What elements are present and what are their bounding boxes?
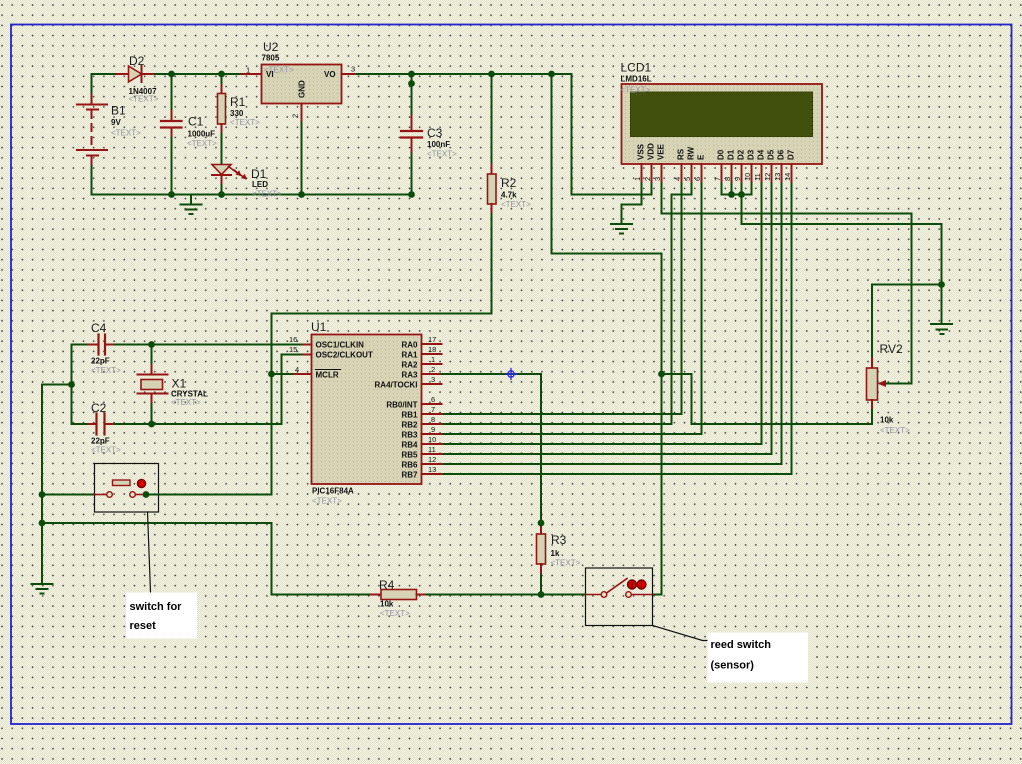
wire: top +9V rail from battery to U2 VI (92, 73, 242, 75)
callout line to reed label (653, 626, 708, 641)
crystal subcircuit: C4 (72, 321, 302, 375)
svg-text:D6: D6 (777, 149, 786, 160)
junction R2 top (488, 71, 495, 78)
svg-text:RA0: RA0 (401, 341, 418, 350)
svg-text:10k: 10k (880, 416, 894, 425)
svg-text:<TEXT>: <TEXT> (111, 129, 141, 138)
svg-text:C1: C1 (188, 115, 204, 129)
wire: C2/X1 bottom up to OSC2 (282, 355, 302, 425)
svg-text:D4: D4 (757, 149, 766, 160)
svg-text:RB1: RB1 (401, 411, 418, 420)
svg-text:16: 16 (289, 335, 297, 344)
wire: LCD VSS to ground (622, 184, 642, 224)
wire: RV2 top terminal to grounded net (872, 285, 942, 359)
wire: D0-D3 tie to ground at right (742, 195, 942, 324)
svg-text:reed switch: reed switch (711, 639, 772, 651)
svg-text:D7: D7 (787, 149, 796, 160)
svg-text:<TEXT>: <TEXT> (252, 190, 282, 199)
svg-text:8: 8 (723, 177, 732, 181)
svg-text:9: 9 (431, 425, 435, 434)
svg-text:3: 3 (351, 65, 355, 74)
wire: reset switch row (42, 494, 95, 496)
svg-text:4: 4 (295, 365, 299, 374)
svg-text:PIC16F84A: PIC16F84A (312, 487, 354, 496)
resistor R4 (371, 578, 427, 618)
svg-text:LED: LED (252, 180, 268, 189)
wire: LCD VDD down to +5V feed (651, 184, 653, 195)
svg-text:RW: RW (687, 146, 696, 160)
wire: R2 bottom to MCLR node (272, 214, 492, 495)
wire: LCD D0-D3 tie (722, 184, 752, 195)
svg-text:switch for: switch for (130, 601, 183, 613)
svg-text:D2: D2 (129, 54, 145, 68)
svg-text:RA3: RA3 (401, 371, 418, 380)
svg-text:<TEXT>: <TEXT> (129, 95, 159, 104)
svg-text:<TEXT>: <TEXT> (427, 150, 457, 159)
svg-text:RA2: RA2 (401, 361, 418, 370)
label: switch for reset (126, 593, 197, 639)
svg-text:VI: VI (266, 70, 274, 79)
svg-text:7805: 7805 (262, 54, 280, 63)
svg-text:5: 5 (683, 177, 692, 181)
svg-text:RS: RS (677, 148, 686, 160)
svg-text:RB4: RB4 (401, 441, 418, 450)
LED D1 (212, 165, 282, 199)
capacitor C1 (161, 74, 217, 195)
junction RV2 ground (938, 281, 945, 288)
svg-text:2: 2 (291, 114, 300, 118)
svg-text:(sensor): (sensor) (711, 660, 755, 672)
svg-text:7: 7 (713, 177, 722, 181)
potentiometer RV2 (867, 342, 911, 435)
reed switch (in box) (586, 568, 653, 626)
junction D1 tie (728, 191, 735, 198)
svg-text:2: 2 (431, 365, 435, 374)
wire: +5V drop at x551 to reed switch, with branch to RV2 bottom (552, 74, 662, 595)
U2 pin 3 (VO) stub (342, 73, 358, 75)
junction C1 bottom (168, 191, 175, 198)
ground symbol (power rail) (181, 195, 202, 215)
svg-text:<TEXT>: <TEXT> (91, 446, 121, 455)
MCLR pin stub of U1 (294, 373, 312, 375)
wire: diode D2 lead segments (red) (117, 73, 129, 75)
svg-text:U2: U2 (263, 40, 279, 54)
svg-text:13: 13 (773, 173, 782, 181)
svg-text:3: 3 (653, 177, 662, 181)
wire: +5V rail from U2 VO to LCD drop (357, 73, 572, 75)
svg-text:C3: C3 (427, 126, 443, 140)
svg-text:RA1: RA1 (401, 351, 418, 360)
capacitor C3 (401, 74, 457, 195)
svg-text:9: 9 (733, 177, 742, 181)
svg-text:GND: GND (298, 80, 307, 98)
svg-text:D5: D5 (767, 149, 776, 160)
svg-text:4: 4 (673, 177, 682, 181)
svg-text:D3: D3 (747, 149, 756, 160)
wire: R4 to reed switch (427, 594, 586, 596)
svg-text:MCLR: MCLR (316, 371, 339, 380)
callout line to reset label (148, 512, 151, 592)
wire: branch to ground leg (42, 384, 72, 386)
ground symbol (bottom left) (32, 584, 53, 594)
label: reed switch (sensor) (708, 633, 809, 683)
svg-text:3: 3 (431, 375, 435, 384)
junction R1 top (218, 71, 225, 78)
svg-text:<TEXT>: <TEXT> (91, 366, 121, 375)
svg-text:RA4/TOCKI: RA4/TOCKI (375, 381, 418, 390)
svg-text:17: 17 (428, 335, 436, 344)
svg-text:22pF: 22pF (91, 437, 110, 446)
svg-text:RB3: RB3 (401, 431, 418, 440)
svg-text:VDD: VDD (647, 143, 656, 160)
svg-text:RB6: RB6 (401, 461, 418, 470)
wire: RA3 to R3 top (442, 374, 542, 523)
junction C1 top (168, 71, 175, 78)
wire: branch from node to RV2 bottom (662, 374, 873, 424)
U1 left pin stubs (OSC1, OSC2) (302, 344, 312, 346)
wire: +5V drop at x571 to LCD VDD (572, 74, 652, 195)
svg-text:15: 15 (289, 345, 297, 354)
svg-text:D1: D1 (727, 149, 736, 160)
wire: LCD D5 to U1 RB5 (442, 184, 772, 455)
svg-text:<TEXT>: <TEXT> (501, 200, 531, 209)
svg-text:U1: U1 (311, 320, 327, 334)
svg-text:9V: 9V (111, 118, 121, 127)
junction X1 top (148, 341, 155, 348)
svg-text:10k: 10k (380, 600, 394, 609)
resistor R3 (537, 523, 581, 595)
junction U2 GND (298, 191, 305, 198)
svg-text:22pF: 22pF (91, 357, 110, 366)
svg-text:OSC2/CLKOUT: OSC2/CLKOUT (316, 351, 373, 360)
svg-text:E: E (697, 154, 706, 160)
svg-text:1000uF: 1000uF (188, 130, 216, 139)
resistor R1 (218, 74, 261, 164)
svg-text:LMD16L: LMD16L (621, 75, 652, 84)
junction R3 top (538, 520, 545, 527)
junction lower row (39, 520, 46, 527)
wire: LCD D4 to U1 RB4 (442, 184, 762, 445)
resistor R2 (488, 74, 532, 214)
svg-text:RB7: RB7 (401, 471, 418, 480)
svg-text:18: 18 (428, 345, 436, 354)
junction C3 aux (408, 80, 415, 87)
svg-text:<TEXT>: <TEXT> (312, 497, 342, 506)
U2 pin 2 (GND) stub and wire (301, 104, 303, 123)
svg-text:12: 12 (763, 173, 772, 181)
junction R3 bottom (538, 591, 545, 598)
svg-text:VEE: VEE (657, 143, 666, 160)
wire: left vertical joining C4 and C2 (71, 345, 73, 425)
junction D1 bottom (218, 191, 225, 198)
junction +5V branch (658, 371, 665, 378)
svg-text:D2: D2 (737, 149, 746, 160)
svg-text:<TEXT>: <TEXT> (551, 559, 581, 568)
svg-text:X1: X1 (172, 377, 187, 391)
svg-text:D0: D0 (717, 149, 726, 160)
svg-text:2: 2 (643, 177, 652, 181)
svg-text:RB0/INT: RB0/INT (386, 401, 417, 410)
wire: LCD VEE to RV2 wiper (662, 184, 912, 384)
svg-text:7: 7 (431, 405, 435, 414)
pin 1 stub of U2 (242, 73, 262, 75)
svg-text:VSS: VSS (637, 143, 646, 160)
svg-text:D1: D1 (251, 167, 267, 181)
svg-text:<TEXT>: <TEXT> (380, 609, 410, 618)
svg-text:8: 8 (431, 415, 435, 424)
wire: LCD D7 to U1 RB7 (442, 184, 792, 475)
junction x551 rail (548, 71, 555, 78)
svg-text:6: 6 (431, 395, 435, 404)
svg-text:4.7k: 4.7k (501, 191, 517, 200)
svg-text:11: 11 (753, 173, 762, 181)
wire: LCD RS down and left to U1 RB1 (442, 184, 682, 415)
wire: bottom row to R4 (272, 594, 372, 596)
wire: left ground leg vertical (41, 385, 43, 584)
wire: LCD E down to U1 RB3 (442, 184, 702, 435)
junction reset row (39, 491, 46, 498)
svg-text:RB5: RB5 (401, 451, 418, 460)
junction C3 bottom (408, 191, 415, 198)
svg-text:1: 1 (246, 66, 250, 75)
svg-text:<TEXT>: <TEXT> (171, 398, 201, 407)
svg-text:<TEXT>: <TEXT> (230, 118, 260, 127)
svg-text:RB2: RB2 (401, 421, 418, 430)
wire: lower reset net to R4 (42, 523, 272, 595)
svg-text:10: 10 (743, 173, 752, 181)
ground symbol (LCD VSS) (611, 224, 632, 234)
svg-text:13: 13 (428, 465, 436, 474)
junction gnd branch (68, 381, 75, 388)
regulator U2 7805 (262, 40, 342, 104)
crystal X1 (138, 345, 209, 425)
junction D2 tie (738, 191, 745, 198)
svg-text:reset: reset (130, 620, 157, 632)
svg-text:C4: C4 (91, 321, 107, 335)
junction X1 bottom (148, 421, 155, 428)
svg-text:R1: R1 (230, 95, 246, 109)
arrowhead into RV2 wiper (878, 380, 887, 387)
svg-text:1: 1 (431, 355, 435, 364)
svg-text:14: 14 (783, 173, 792, 181)
wire: reset switch to MCLR vertical (159, 494, 272, 496)
junction MCLR (268, 371, 275, 378)
svg-text:C2: C2 (91, 401, 107, 415)
svg-text:1: 1 (633, 177, 642, 181)
svg-text:LCD1: LCD1 (621, 61, 652, 75)
svg-text:RV2: RV2 (880, 342, 903, 356)
microcontroller U1 PIC16F84A (311, 320, 422, 506)
LCD1 display (621, 61, 823, 165)
svg-text:R3: R3 (551, 533, 567, 547)
junction C3 top (408, 71, 415, 78)
wire: LCD RW down, jog left, down to U1 RB2 (442, 184, 692, 425)
wire: LCD D6 to U1 RB6 (442, 184, 782, 465)
svg-text:OSC1/CLKIN: OSC1/CLKIN (316, 341, 365, 350)
crystal subcircuit: C2 (72, 401, 282, 455)
node marker (blue) on RA3 wire (506, 369, 517, 380)
battery B1 (77, 74, 141, 195)
LCD pin stubs 1-14 (642, 164, 792, 184)
svg-text:VO: VO (324, 70, 336, 79)
svg-text:R4: R4 (379, 578, 395, 592)
svg-text:330: 330 (230, 109, 244, 118)
svg-text:R2: R2 (501, 176, 517, 190)
svg-text:11: 11 (428, 445, 436, 454)
U1 right pin stubs (422, 344, 442, 474)
svg-text:100nF: 100nF (427, 140, 450, 149)
diode D2 (129, 54, 159, 104)
junction switch output (143, 491, 150, 498)
wire: bottom 0V rail (92, 194, 412, 196)
svg-text:10: 10 (428, 435, 436, 444)
svg-text:<TEXT>: <TEXT> (621, 86, 651, 95)
svg-text:6: 6 (693, 177, 702, 181)
reset push-button (in box) (95, 464, 159, 513)
wire: MCLR horizontal (272, 373, 295, 375)
svg-text:1k: 1k (551, 549, 560, 558)
svg-text:B1: B1 (111, 104, 126, 118)
ground symbol (right, D0-D3 / RV2 top) (931, 324, 952, 334)
svg-text:<TEXT>: <TEXT> (880, 426, 910, 435)
svg-text:12: 12 (428, 455, 436, 464)
svg-text:<TEXT>: <TEXT> (187, 139, 217, 148)
